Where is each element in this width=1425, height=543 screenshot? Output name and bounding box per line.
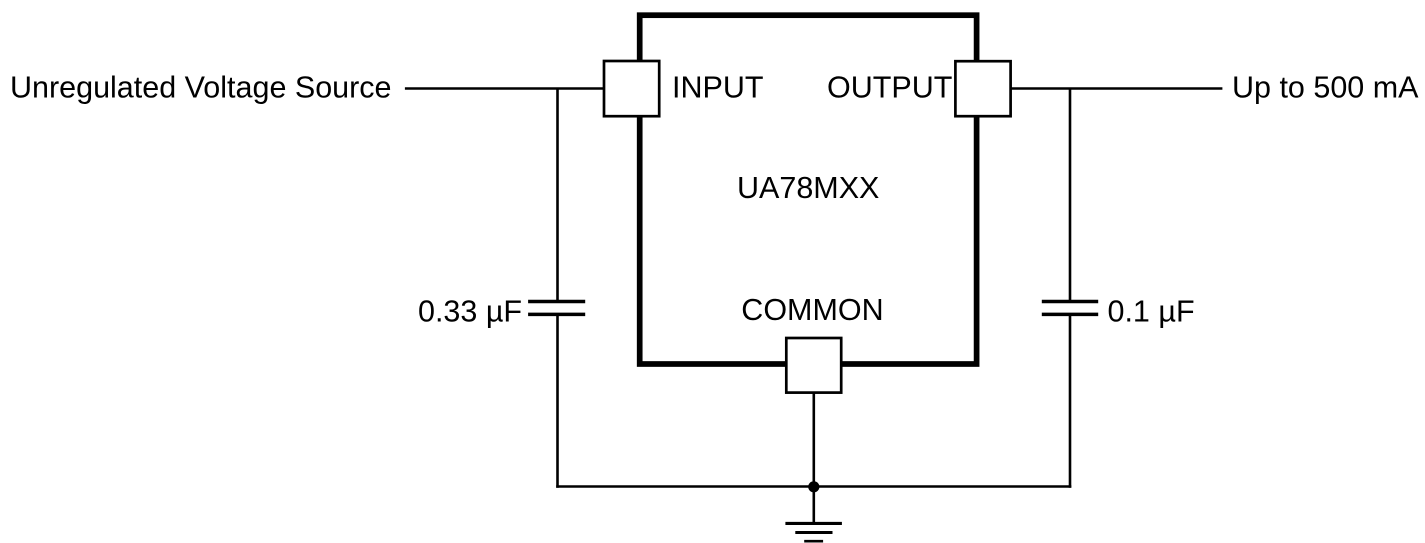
op-amp U1 regulator body UA78MXX bbox=[640, 15, 977, 364]
wire C1 to ground bus bbox=[556, 314, 559, 487]
svg-text:0.1 µF: 0.1 µF bbox=[1108, 295, 1195, 329]
svg-text:OUTPUT: OUTPUT bbox=[827, 71, 952, 105]
svg-text:Up to 500 mA: Up to 500 mA bbox=[1232, 71, 1419, 105]
wire COMMON pin to ground bbox=[812, 393, 815, 524]
svg-text:UA78MXX: UA78MXX bbox=[737, 171, 879, 205]
wire output branch vertical to C2 bbox=[1069, 89, 1072, 302]
wire ground bus bbox=[556, 485, 1071, 488]
pin box OUTPUT terminal bbox=[955, 61, 1010, 116]
wire input: source to INPUT pin bbox=[405, 87, 604, 90]
junction dot at ground node bbox=[808, 481, 819, 492]
pin box COMMON terminal bbox=[786, 338, 841, 393]
wire output: OUTPUT pin to load bbox=[1011, 87, 1223, 90]
pin box INPUT terminal bbox=[604, 61, 659, 116]
capacitor C2 0.1 uF plates bbox=[1042, 302, 1098, 315]
wire C2 to ground bus bbox=[1069, 314, 1072, 487]
svg-text:0.33 µF: 0.33 µF bbox=[418, 295, 522, 329]
capacitor C1 0.33 uF plates bbox=[528, 302, 585, 315]
svg-text:INPUT: INPUT bbox=[672, 71, 764, 105]
ground bbox=[785, 523, 842, 541]
wire input branch vertical to C1 bbox=[556, 89, 559, 302]
svg-text:COMMON: COMMON bbox=[741, 293, 883, 327]
svg-text:Unregulated Voltage Source: Unregulated Voltage Source bbox=[10, 71, 392, 105]
